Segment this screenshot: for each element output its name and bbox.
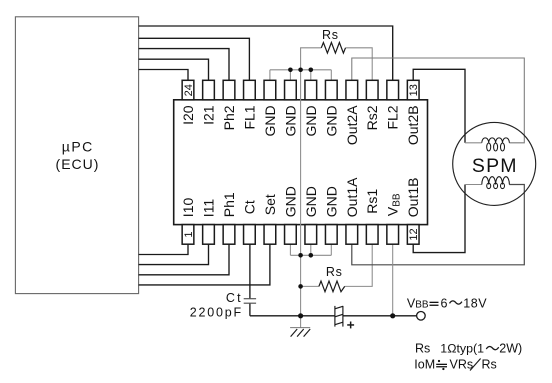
svg-text:2W): 2W)	[499, 341, 522, 355]
svg-text:13: 13	[408, 84, 420, 96]
svg-text:GND: GND	[262, 105, 278, 136]
svg-text:(ECU): (ECU)	[56, 156, 100, 172]
svg-text:1Ωtyp(1: 1Ωtyp(1	[440, 341, 484, 355]
svg-text:Set: Set	[262, 194, 278, 215]
svg-text:12: 12	[408, 228, 420, 240]
svg-text:Rs: Rs	[322, 28, 339, 42]
svg-text:I20: I20	[180, 105, 196, 125]
svg-text:Ct: Ct	[241, 200, 257, 214]
svg-text:GND: GND	[303, 105, 319, 136]
svg-text:Out2B: Out2B	[405, 105, 421, 145]
svg-text:GND: GND	[323, 105, 339, 136]
svg-text:Rs1: Rs1	[364, 189, 380, 214]
svg-text:1: 1	[183, 231, 195, 237]
svg-text:GND: GND	[282, 105, 298, 136]
svg-text:Ph1: Ph1	[221, 192, 237, 217]
svg-text:I10: I10	[180, 198, 196, 218]
svg-text:IoM: IoM	[414, 357, 435, 371]
svg-text:µPC: µPC	[62, 139, 94, 155]
svg-text:Out1B: Out1B	[405, 177, 421, 217]
svg-text:18V: 18V	[463, 296, 487, 310]
svg-text:FL2: FL2	[385, 105, 401, 129]
svg-text:SPM: SPM	[472, 155, 518, 177]
svg-text:FL1: FL1	[241, 105, 257, 129]
svg-text:VRs: VRs	[450, 357, 474, 371]
svg-text:2200pF: 2200pF	[190, 306, 243, 320]
svg-text:Out1A: Out1A	[344, 177, 360, 217]
svg-text:GND: GND	[303, 186, 319, 217]
svg-text:Rs2: Rs2	[364, 105, 380, 130]
svg-text:GND: GND	[323, 186, 339, 217]
svg-text:24: 24	[183, 84, 195, 96]
svg-text:Rs: Rs	[415, 341, 430, 355]
svg-text:Rs: Rs	[326, 265, 343, 279]
svg-text:VBB: VBB	[407, 296, 429, 310]
svg-text:Out2A: Out2A	[344, 105, 360, 145]
svg-text:I11: I11	[201, 199, 217, 218]
svg-text:I21: I21	[201, 105, 217, 125]
svg-text:Ph2: Ph2	[221, 105, 237, 130]
svg-text:6: 6	[441, 296, 448, 310]
svg-text:Ct: Ct	[226, 291, 243, 305]
svg-text:Rs: Rs	[482, 357, 497, 371]
svg-text:GND: GND	[282, 186, 298, 217]
